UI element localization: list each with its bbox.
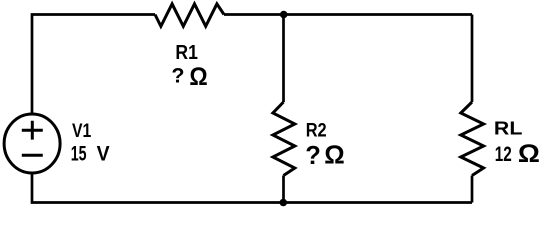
svg-text:Ω: Ω	[189, 63, 207, 91]
svg-text:12: 12	[495, 142, 512, 166]
wire middle branch bottom	[282, 176, 285, 203]
V1 minus sign	[22, 154, 43, 157]
svg-text:Ω: Ω	[518, 140, 540, 168]
V1 plus sign	[22, 121, 43, 140]
wire top-left from source to R1	[32, 15, 155, 114]
node junction dot bottom	[280, 199, 288, 207]
node junction dot top	[280, 11, 288, 19]
svg-text:RL: RL	[494, 117, 523, 138]
wire RL bottom	[471, 176, 474, 203]
svg-text:?: ?	[171, 64, 184, 88]
svg-text:?: ?	[305, 142, 321, 170]
svg-text:15: 15	[71, 141, 87, 166]
svg-text:R1: R1	[175, 42, 198, 64]
wire middle branch top	[282, 15, 285, 103]
svg-text:V1: V1	[72, 121, 92, 142]
svg-text:V: V	[97, 141, 111, 166]
svg-text:R2: R2	[306, 119, 327, 141]
resistor RL	[461, 102, 484, 176]
wire top-right from R1 to right corner	[224, 13, 472, 16]
resistor R1	[155, 4, 224, 26]
wire right vertical down to RL	[471, 15, 474, 103]
resistor R2	[273, 102, 295, 176]
wire bottom rail	[32, 174, 472, 203]
svg-text:Ω: Ω	[324, 142, 344, 170]
voltage source V1	[4, 114, 60, 173]
